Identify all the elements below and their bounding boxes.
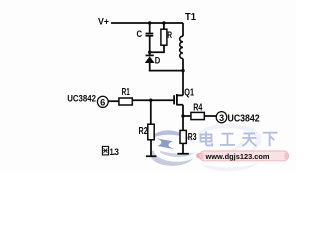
svg-text:6: 6 — [100, 98, 105, 108]
svg-text:R: R — [167, 30, 172, 40]
svg-text:T1: T1 — [185, 12, 196, 23]
svg-text:www.dgjs123.com: www.dgjs123.com — [205, 152, 270, 161]
svg-text:UC3842: UC3842 — [228, 113, 261, 124]
svg-text:Q1: Q1 — [184, 88, 194, 99]
svg-text:C: C — [137, 29, 143, 39]
svg-text:UC3842: UC3842 — [67, 94, 96, 104]
svg-text:D: D — [155, 55, 161, 65]
svg-text:3: 3 — [114, 147, 119, 158]
svg-text:R1: R1 — [122, 87, 130, 98]
svg-text:3: 3 — [219, 113, 224, 123]
svg-text:R2: R2 — [139, 126, 149, 137]
svg-text:V+: V+ — [98, 16, 109, 27]
svg-text:R4: R4 — [193, 103, 203, 114]
svg-text:R3: R3 — [188, 132, 197, 143]
